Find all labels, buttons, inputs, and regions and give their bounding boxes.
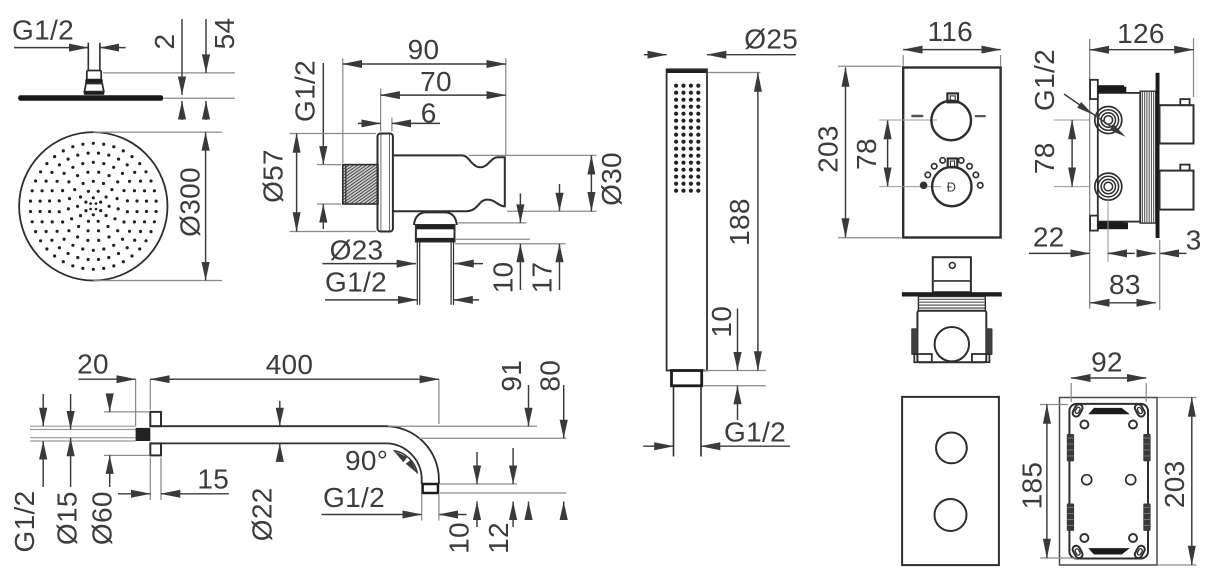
svg-text:2: 2: [149, 34, 180, 50]
svg-text:203: 203: [813, 125, 844, 173]
svg-text:10: 10: [488, 262, 519, 294]
svg-text:Ø25: Ø25: [744, 23, 798, 54]
svg-text:90°: 90°: [345, 445, 388, 476]
svg-text:15: 15: [197, 464, 229, 495]
svg-text:G1/2: G1/2: [9, 491, 40, 553]
svg-text:G1/2: G1/2: [1029, 49, 1060, 111]
svg-text:10: 10: [706, 306, 737, 338]
svg-text:G1/2: G1/2: [325, 266, 387, 297]
svg-text:G1/2: G1/2: [724, 417, 786, 448]
svg-text:92: 92: [1091, 347, 1123, 378]
svg-text:185: 185: [1017, 462, 1048, 510]
svg-text:20: 20: [77, 348, 109, 379]
svg-text:80: 80: [535, 360, 566, 392]
svg-text:10: 10: [443, 522, 474, 554]
svg-text:83: 83: [1109, 269, 1141, 300]
svg-text:Ø57: Ø57: [257, 149, 288, 203]
svg-text:Ø22: Ø22: [247, 487, 278, 541]
svg-text:12: 12: [483, 522, 514, 554]
svg-text:G1/2: G1/2: [323, 482, 385, 513]
svg-text:91: 91: [496, 360, 527, 392]
svg-text:22: 22: [1033, 222, 1065, 253]
svg-text:3: 3: [1186, 224, 1202, 255]
svg-text:G1/2: G1/2: [290, 60, 321, 122]
svg-text:70: 70: [420, 66, 452, 97]
svg-text:78: 78: [1029, 142, 1060, 174]
svg-text:203: 203: [1159, 460, 1190, 508]
svg-text:6: 6: [421, 98, 437, 129]
svg-text:G1/2: G1/2: [12, 15, 74, 46]
svg-text:Ø300: Ø300: [175, 167, 206, 237]
svg-text:Ø23: Ø23: [330, 235, 384, 266]
svg-text:400: 400: [266, 349, 314, 380]
svg-text:17: 17: [527, 262, 558, 294]
svg-text:Ð: Ð: [947, 180, 957, 195]
svg-text:54: 54: [209, 18, 240, 50]
svg-text:Ø15: Ø15: [51, 491, 82, 545]
svg-text:Ø30: Ø30: [596, 152, 627, 206]
svg-text:78: 78: [851, 138, 882, 170]
svg-text:90: 90: [408, 34, 440, 65]
svg-text:188: 188: [724, 198, 755, 246]
svg-text:116: 116: [928, 16, 974, 47]
svg-text:126: 126: [1117, 18, 1165, 49]
svg-text:Ø60: Ø60: [86, 491, 117, 545]
